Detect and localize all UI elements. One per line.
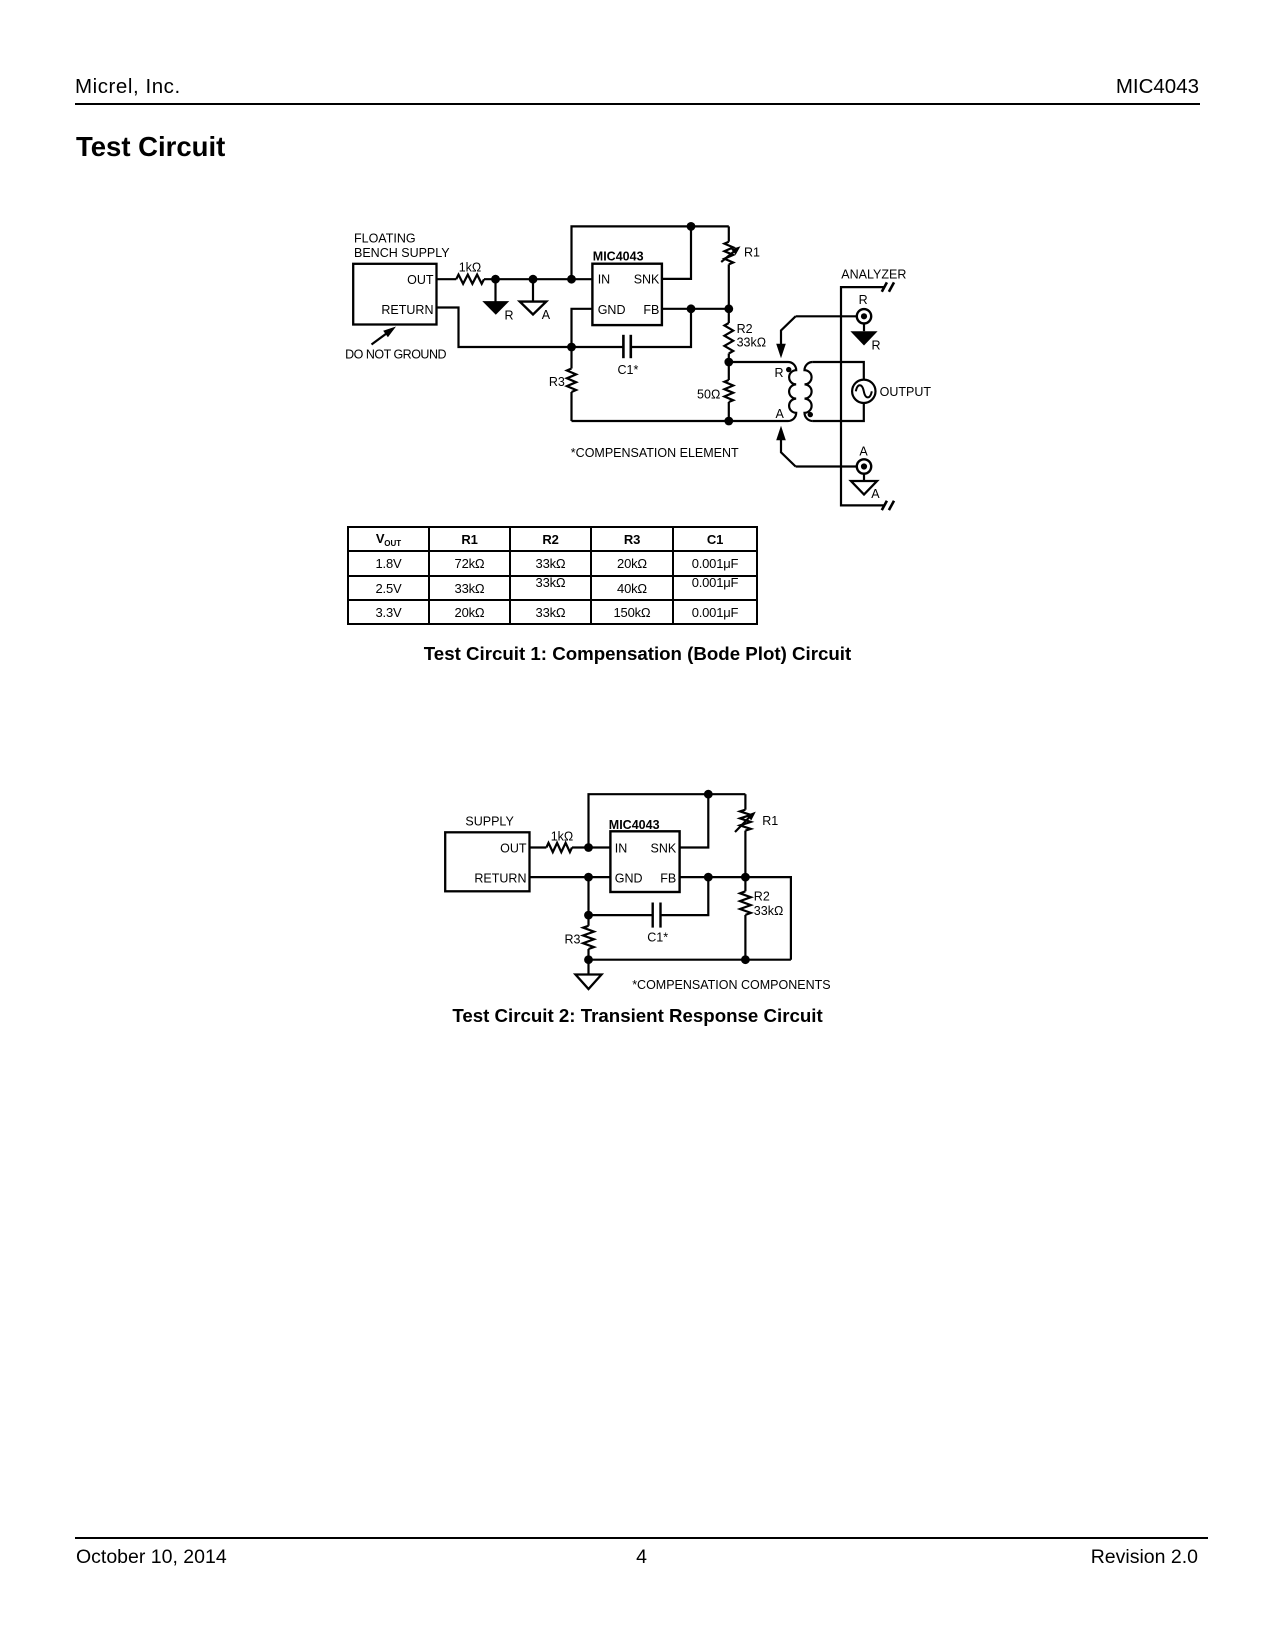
svg-text:MIC4043: MIC4043 bbox=[593, 249, 644, 263]
svg-text:A: A bbox=[871, 487, 880, 501]
svg-text:R3: R3 bbox=[549, 375, 565, 389]
svg-text:A: A bbox=[542, 308, 551, 322]
svg-text:SNK: SNK bbox=[634, 273, 660, 287]
svg-text:A: A bbox=[776, 407, 785, 421]
svg-text:IN: IN bbox=[615, 842, 628, 856]
svg-text:RETURN: RETURN bbox=[381, 303, 433, 317]
svg-text:FLOATING: FLOATING bbox=[354, 231, 416, 245]
svg-text:FB: FB bbox=[660, 871, 676, 885]
svg-text:IN: IN bbox=[598, 273, 611, 287]
svg-text:33kΩ: 33kΩ bbox=[737, 335, 767, 349]
svg-text:RETURN: RETURN bbox=[474, 871, 526, 885]
svg-text:SUPPLY: SUPPLY bbox=[465, 815, 514, 829]
svg-text:FB: FB bbox=[643, 303, 659, 317]
svg-text:DO NOT GROUND: DO NOT GROUND bbox=[345, 347, 446, 361]
svg-text:R: R bbox=[872, 339, 881, 353]
svg-text:R3: R3 bbox=[565, 933, 581, 947]
svg-text:OUT: OUT bbox=[407, 273, 434, 287]
svg-text:R2: R2 bbox=[754, 890, 770, 904]
svg-text:C1*: C1* bbox=[617, 363, 638, 377]
svg-text:GND: GND bbox=[598, 303, 626, 317]
svg-text:R2: R2 bbox=[737, 322, 753, 336]
svg-text:R1: R1 bbox=[744, 246, 760, 260]
svg-text:ANALYZER: ANALYZER bbox=[841, 268, 906, 282]
svg-text:1kΩ: 1kΩ bbox=[459, 260, 482, 274]
svg-text:BENCH SUPPLY: BENCH SUPPLY bbox=[354, 246, 450, 260]
svg-text:33kΩ: 33kΩ bbox=[754, 904, 784, 918]
svg-text:1kΩ: 1kΩ bbox=[551, 830, 574, 844]
svg-text:OUTPUT: OUTPUT bbox=[880, 385, 932, 399]
svg-text:C1*: C1* bbox=[647, 931, 668, 945]
svg-text:R: R bbox=[859, 293, 868, 307]
svg-text:GND: GND bbox=[615, 871, 643, 885]
svg-text:*COMPENSATION COMPONENTS: *COMPENSATION COMPONENTS bbox=[632, 978, 830, 992]
svg-text:MIC4043: MIC4043 bbox=[609, 818, 660, 832]
svg-text:50Ω: 50Ω bbox=[697, 388, 720, 402]
svg-text:OUT: OUT bbox=[500, 842, 527, 856]
svg-text:R: R bbox=[505, 308, 514, 322]
svg-text:R: R bbox=[775, 366, 784, 380]
svg-text:R1: R1 bbox=[762, 814, 778, 828]
svg-text:SNK: SNK bbox=[650, 842, 676, 856]
svg-text:*COMPENSATION ELEMENT: *COMPENSATION ELEMENT bbox=[571, 446, 739, 460]
svg-text:A: A bbox=[859, 445, 868, 459]
